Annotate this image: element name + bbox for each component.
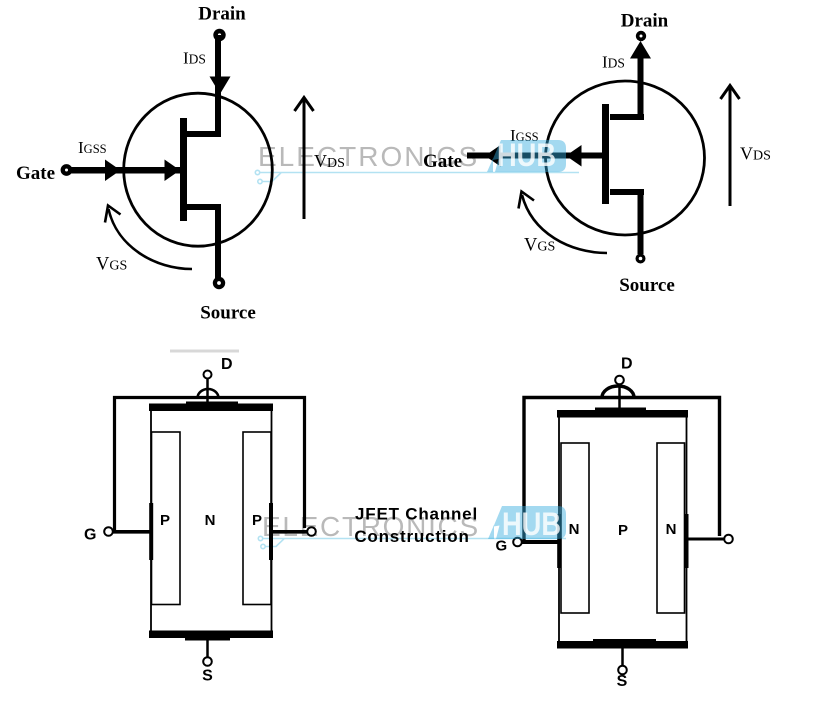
- svg-text:N: N: [205, 512, 216, 529]
- svg-text:D: D: [221, 356, 233, 373]
- svg-text:P: P: [252, 512, 262, 529]
- svg-text:N: N: [666, 521, 677, 538]
- bottom contact bump (right diag): [593, 639, 656, 642]
- svg-text:HUB: HUB: [497, 138, 556, 174]
- svg-text:S: S: [617, 673, 628, 690]
- drain lead wire (right diag): [618, 384, 621, 410]
- drain terminal (left): [213, 29, 225, 41]
- drain connection wire (right): [610, 114, 644, 120]
- gate arrowhead 2 pointing left (right jfet): [566, 145, 582, 167]
- svg-text:Gate: Gate: [16, 163, 55, 184]
- VDS arrow (left): [295, 98, 314, 220]
- drain wire (right): [638, 58, 644, 120]
- source wire (left): [215, 204, 221, 283]
- source lead wire (right diag): [621, 649, 624, 667]
- JFET circle (left): [124, 93, 273, 246]
- watermark1 blue underline: [260, 172, 579, 174]
- right P well (left diag): [243, 432, 271, 605]
- body rectangle (left diag): [151, 407, 272, 636]
- body rectangle (right diag): [559, 413, 687, 643]
- svg-text:G: G: [84, 527, 96, 544]
- G wire (right diag): [521, 540, 559, 544]
- wire hop arc (left diag): [198, 389, 219, 398]
- drain connection wire (left): [187, 131, 221, 137]
- right gate contact bar (right diag): [685, 514, 689, 568]
- terminal S (left diag): [203, 657, 212, 666]
- watermark1 pcb trace decoration: [255, 170, 281, 183]
- bottom contact bar (right diag): [557, 641, 688, 649]
- svg-text:Source: Source: [619, 275, 675, 296]
- outer gate loop wire (right diag): [524, 398, 720, 541]
- watermark1 HUB blue box: [487, 138, 566, 174]
- wire hop arc (right diag): [602, 386, 634, 397]
- watermark2 HUB blue box: [488, 506, 566, 543]
- IDS arrowhead (left): [210, 77, 231, 95]
- source terminal (right): [636, 254, 646, 264]
- svg-text:HUB: HUB: [502, 507, 561, 543]
- bottom contact bar (left diag): [149, 631, 273, 639]
- watermark2 ELECTRONICS gray text: [262, 511, 480, 542]
- svg-text:IDS: IDS: [183, 49, 206, 68]
- svg-text:Source: Source: [200, 303, 256, 324]
- top contact bump (right diag): [595, 408, 646, 412]
- top contact bar (left diag): [149, 404, 273, 412]
- right gate wire (left diag): [273, 530, 307, 534]
- source terminal (left): [213, 277, 225, 289]
- drain arrowhead up (right): [630, 41, 651, 59]
- gate terminal (left): [61, 164, 73, 176]
- svg-text:Drain: Drain: [621, 11, 669, 32]
- right N well (right diag): [657, 443, 685, 613]
- svg-text:Drain: Drain: [198, 4, 246, 25]
- watermark1 ELECTRONICS gray text: [258, 141, 479, 172]
- svg-text:IDS: IDS: [602, 53, 625, 72]
- terminal D (right diag): [615, 376, 624, 385]
- VGS curved arrow (left): [105, 206, 192, 270]
- drain wire (left): [215, 35, 221, 135]
- terminal S (right diag): [618, 666, 627, 675]
- gate wire (right): [467, 153, 602, 159]
- G wire (left diag): [113, 530, 151, 534]
- top contact bump (left diag): [186, 402, 238, 405]
- right gate terminal (left diag): [307, 527, 316, 536]
- source wire (right): [638, 189, 644, 254]
- right gate wire (right diag): [689, 538, 725, 541]
- gate bar (right): [602, 104, 609, 204]
- VDS arrow (right): [721, 86, 740, 207]
- left N well (right diag): [561, 443, 589, 613]
- outer gate loop wire (left diag): [115, 398, 305, 532]
- heading JFET Channel Construction: [354, 505, 478, 547]
- drain terminal (right): [636, 31, 646, 41]
- watermark2 pcb trace decoration: [258, 536, 284, 548]
- svg-text:Gate: Gate: [423, 151, 462, 172]
- source lead wire (left diag): [206, 640, 209, 657]
- right gate terminal (right diag): [724, 535, 733, 544]
- left P well (left diag): [152, 432, 181, 605]
- left gate contact bar (left diag): [149, 503, 153, 560]
- gate arrowhead 1 (left): [105, 160, 121, 182]
- gate bar (left): [180, 118, 187, 221]
- svg-text:JFET Channel: JFET Channel: [355, 505, 478, 524]
- left gate contact bar (right diag): [557, 514, 561, 568]
- svg-text:P: P: [160, 512, 170, 529]
- drain lead wire (left diag): [206, 379, 209, 405]
- svg-text:P: P: [618, 522, 628, 539]
- source connection wire (left): [187, 204, 221, 210]
- source connection wire (right): [610, 189, 644, 195]
- gate arrowhead 2 (left): [165, 160, 181, 182]
- bottom contact bump (left diag): [185, 638, 230, 641]
- faint gray smudge above left construction diagram: [170, 350, 239, 353]
- terminal D (left diag): [204, 371, 212, 379]
- G terminal (left diag): [104, 527, 113, 536]
- VGS curved arrow (right): [519, 192, 608, 254]
- gate arrowhead 1 pointing left (right jfet): [485, 145, 501, 167]
- svg-text:N: N: [569, 521, 580, 538]
- svg-text:Construction: Construction: [354, 527, 469, 546]
- watermark2 blue underline: [263, 538, 566, 540]
- top contact bar (right diag): [557, 410, 688, 418]
- gate wire (left): [70, 167, 180, 174]
- right gate contact bar (left diag): [269, 503, 273, 560]
- svg-text:S: S: [202, 668, 213, 685]
- JFET circle (right): [546, 81, 705, 235]
- svg-text:D: D: [621, 356, 633, 373]
- G terminal (right diag): [513, 538, 522, 547]
